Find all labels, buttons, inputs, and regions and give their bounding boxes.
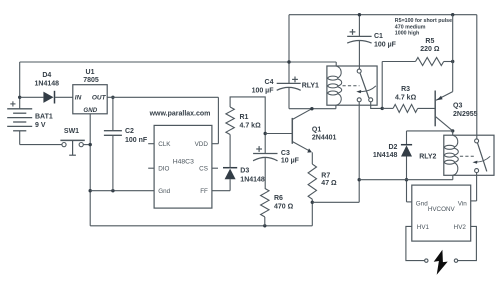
svg-text:R1: R1 [240,114,249,121]
svg-text:2N4401: 2N4401 [312,135,337,142]
svg-text:1N4148: 1N4148 [373,152,398,159]
svg-text:470 Ω: 470 Ω [274,204,294,211]
svg-text:Gnd: Gnd [416,200,428,207]
svg-text:100 nF: 100 nF [125,137,148,144]
svg-text:VDD: VDD [195,141,209,148]
svg-text:R5: R5 [425,38,434,45]
svg-text:U1: U1 [86,69,95,76]
svg-text:R7: R7 [321,173,330,180]
svg-text:R3: R3 [401,86,410,93]
svg-text:100 µF: 100 µF [252,88,275,95]
svg-text:C3: C3 [281,150,290,157]
svg-text:47 Ω: 47 Ω [321,180,337,187]
svg-text:100 µF: 100 µF [374,42,397,49]
svg-text:D2: D2 [388,144,397,151]
svg-text:4.7 kΩ: 4.7 kΩ [395,94,417,101]
svg-text:4.7 kΩ: 4.7 kΩ [240,123,262,130]
svg-text:C4: C4 [265,79,274,86]
svg-text:OUT: OUT [92,95,107,102]
svg-text:www.parallax.com: www.parallax.com [149,110,211,117]
svg-text:HV2: HV2 [454,224,467,231]
svg-text:BAT1: BAT1 [35,113,53,120]
svg-text:HV1: HV1 [417,224,430,231]
svg-text:GND: GND [83,107,97,114]
svg-text:1000 high: 1000 high [395,31,419,37]
svg-text:Q1: Q1 [312,126,321,133]
svg-text:CS: CS [199,166,208,173]
svg-text:D3: D3 [240,167,249,174]
svg-text:C1: C1 [374,33,383,40]
svg-text:1N4148: 1N4148 [35,81,60,88]
svg-text:1N4148: 1N4148 [240,176,265,183]
svg-text:Gnd: Gnd [158,188,170,195]
svg-text:R5=100 for short pulse: R5=100 for short pulse [395,18,452,24]
svg-text:7805: 7805 [83,77,99,84]
svg-text:IN: IN [75,95,82,102]
svg-text:2N2955: 2N2955 [453,111,478,118]
svg-text:HVCONV: HVCONV [428,206,456,213]
svg-text:Vin: Vin [458,200,467,207]
svg-text:CLK: CLK [158,141,171,148]
svg-text:9 V: 9 V [35,122,46,129]
svg-text:D4: D4 [42,72,51,79]
svg-text:Q3: Q3 [453,103,462,110]
svg-text:DIO: DIO [158,166,169,173]
svg-text:220 Ω: 220 Ω [420,46,440,53]
svg-text:C2: C2 [125,128,134,135]
svg-text:H48C3: H48C3 [173,159,194,166]
svg-text:FF: FF [200,188,208,195]
svg-text:RLY1: RLY1 [302,83,319,90]
svg-text:10 µF: 10 µF [281,158,300,165]
svg-text:R6: R6 [274,195,283,202]
svg-text:RLY2: RLY2 [419,154,436,161]
svg-text:SW1: SW1 [64,128,79,135]
